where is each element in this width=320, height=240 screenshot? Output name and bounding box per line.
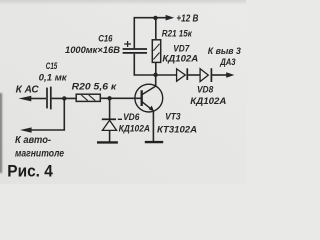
- svg-text:КД102А: КД102А: [119, 124, 151, 134]
- svg-text:КД102А: КД102А: [190, 96, 226, 106]
- diode VD7: [177, 68, 188, 81]
- svg-text:R20 5,6 к: R20 5,6 к: [72, 82, 118, 92]
- label +12 В: [176, 14, 198, 25]
- wire: VD6 bottom lead: [109, 130, 111, 141]
- caption Рис. 4: [7, 163, 53, 181]
- capacitor C15: [47, 87, 51, 110]
- wire: VD6 top lead: [109, 98, 111, 119]
- top edge shading: [0, 0, 246, 5]
- wire: R21 top lead: [155, 18, 157, 40]
- label 1000мк x 16В: [65, 45, 120, 55]
- label КТ3102А: [157, 125, 197, 135]
- wire: node to VD7: [156, 74, 177, 76]
- label C16: [98, 33, 113, 43]
- label К АС: [16, 84, 40, 95]
- wire: R21 bottom lead: [155, 62, 157, 75]
- label 0,1 мк: [39, 73, 68, 83]
- diode VD6: [102, 119, 122, 130]
- junction: collector node: [153, 73, 157, 77]
- wire: tap down from C15 junction: [31, 98, 64, 130]
- label К выв 3: [208, 46, 242, 56]
- svg-text:К выв 3: К выв 3: [208, 46, 242, 56]
- svg-text:1000мк×16В: 1000мк×16В: [65, 45, 120, 55]
- left gutter shadow: [0, 93, 3, 173]
- arrow to AC (left input): [19, 96, 32, 102]
- transistor VT3: [135, 84, 163, 112]
- svg-text:ДА3: ДА3: [219, 57, 236, 67]
- arrow to +12V: [166, 15, 175, 21]
- svg-text:КД102А: КД102А: [162, 53, 198, 63]
- label R20 5,6 к: [72, 82, 118, 92]
- label VT3: [165, 112, 181, 122]
- label ДА3: [219, 57, 236, 67]
- svg-text:КТ3102А: КТ3102А: [157, 125, 197, 135]
- wire: input to C15: [31, 98, 47, 100]
- paper grain: [0, 0, 246, 184]
- label C15: [46, 61, 58, 71]
- wire: R20 to base: [100, 97, 141, 99]
- wire: VD8 to output arrow: [211, 74, 227, 76]
- svg-text:VD7: VD7: [173, 44, 190, 54]
- resistor R20: [76, 94, 100, 101]
- arrow to car radio: [20, 127, 32, 132]
- svg-text:VD8: VD8: [197, 84, 214, 94]
- common bar under VD6: [97, 141, 118, 143]
- svg-text:К АС: К АС: [16, 84, 40, 95]
- svg-text:К авто-: К авто-: [15, 135, 52, 146]
- wire: C15 to R20: [52, 97, 77, 99]
- label R21 15к: [162, 28, 193, 38]
- label К авто-: [15, 135, 52, 146]
- svg-text:0,1 мк: 0,1 мк: [39, 73, 68, 83]
- svg-text:магнитоле: магнитоле: [15, 148, 64, 159]
- resistor R21: [152, 40, 160, 63]
- capacitor C16: [123, 49, 147, 53]
- label VD8: [197, 84, 214, 94]
- arrow to DA3 pin 3: [226, 72, 234, 77]
- svg-text:VD6: VD6: [123, 112, 140, 122]
- wire: emitter lead down: [152, 111, 154, 141]
- wire: VD7 to VD8: [187, 74, 200, 76]
- junction: base wire / VD6: [107, 96, 111, 100]
- label КД102А (VD7): [162, 53, 198, 63]
- label КД102А (VD8): [190, 96, 226, 106]
- svg-text:VT3: VT3: [165, 112, 181, 122]
- paper background: [0, 0, 246, 184]
- capacitor C16 plus sign: [124, 41, 131, 47]
- common bar under emitter: [145, 141, 163, 143]
- svg-text:C15: C15: [46, 61, 58, 71]
- diode VD8: [200, 68, 211, 82]
- junction: top rail / R21: [153, 16, 157, 20]
- svg-text:+12 В: +12 В: [176, 14, 198, 25]
- wire: collector lead: [155, 75, 157, 86]
- wire: C16 bottom to node: [134, 54, 155, 75]
- svg-text:Рис. 4: Рис. 4: [7, 163, 53, 181]
- label КД102А (VD6): [119, 124, 151, 134]
- junction: C15 / tap to car radio: [62, 96, 66, 100]
- svg-text:C16: C16: [98, 33, 113, 43]
- wire: +12V top rail: [134, 18, 166, 49]
- label VD6: [123, 112, 140, 122]
- svg-text:R21 15к: R21 15к: [162, 28, 193, 38]
- label магнитоле: [15, 148, 64, 159]
- label VD7: [173, 44, 190, 54]
